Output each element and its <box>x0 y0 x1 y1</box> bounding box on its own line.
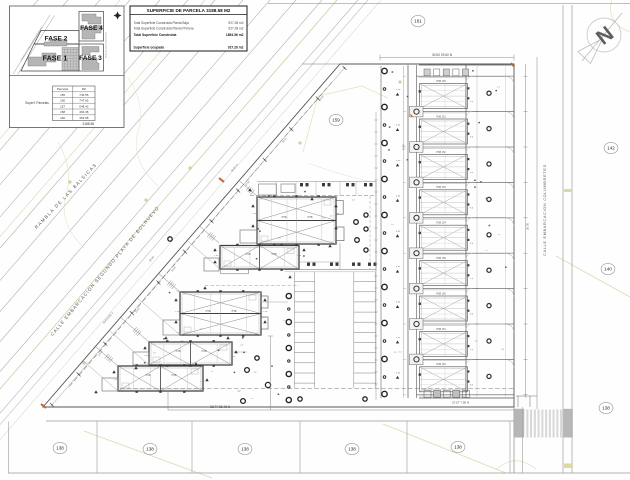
terrace porch stair 5 <box>410 248 424 259</box>
north arrow shaft <box>582 13 622 61</box>
parcel number 159 <box>329 114 343 125</box>
entry stair 1 <box>246 186 250 191</box>
terrace unit 8 back arc <box>466 324 472 330</box>
plot line 3 <box>159 273 181 292</box>
svg-text:38.77 39.48 N: 38.77 39.48 N <box>210 405 231 409</box>
scattered trees <box>265 382 270 387</box>
terrace unit 1 garden gate arc <box>506 76 515 85</box>
svg-text:FASE 1: FASE 1 <box>43 54 68 63</box>
svg-text:138: 138 <box>348 447 356 452</box>
house E garage <box>102 378 118 391</box>
terrace porch stair 3 <box>410 177 424 188</box>
entry stair 4 <box>133 327 137 332</box>
key plan fase 1 buildings <box>28 53 56 66</box>
road rambla diagonal lines <box>0 0 381 480</box>
svg-text:927.28 m2: 927.28 m2 <box>228 21 243 25</box>
svg-text:P.5B 151: P.5B 151 <box>436 115 446 118</box>
svg-text:P.5B 153: P.5B 153 <box>436 186 446 189</box>
terrace unit 9 roof <box>420 367 468 392</box>
svg-text:Total Superficie Construida Pl: Total Superficie Construida Planta Baja <box>134 21 190 25</box>
svg-text:P.5B: P.5B <box>176 350 181 353</box>
svg-text:P.5B 150: P.5B 150 <box>436 292 446 295</box>
terrace unit 5 marks <box>419 232 421 234</box>
svg-text:161: 161 <box>414 19 422 24</box>
svg-text:P.5B 152: P.5B 152 <box>436 363 446 366</box>
terrace party wall 10 <box>417 394 515 396</box>
top margin line <box>268 3 630 5</box>
svg-text:30.50 29.60 N: 30.50 29.60 N <box>432 53 453 57</box>
terrace unit 9 garden tree <box>487 374 491 378</box>
terrace unit 5 garden tree <box>487 233 491 237</box>
terrace unit 2 garden tree <box>487 127 491 131</box>
entry stair 2 <box>207 232 211 237</box>
terrace unit 9 back arc <box>466 359 472 365</box>
road calle segundo curbs <box>0 0 337 480</box>
setback dashed line along street <box>68 82 332 388</box>
house pair A window marks <box>273 195 275 197</box>
svg-text:158: 158 <box>60 110 65 114</box>
bottom parcels baseline <box>8 472 630 474</box>
svg-text:138: 138 <box>454 445 462 450</box>
terrain contour top right <box>610 0 630 32</box>
entry stair 3 <box>167 280 171 285</box>
dashed garden line east of house A <box>369 196 371 269</box>
svg-text:FASE 2: FASE 2 <box>45 36 68 43</box>
terrace unit 1 back arc <box>466 76 472 82</box>
terrace unit 9 marks <box>419 373 421 375</box>
dim line mid vertical <box>270 336 272 410</box>
key plan fase 2 parcel <box>34 31 79 45</box>
terrace party wall 7 <box>417 288 515 290</box>
svg-text:P.5B: P.5B <box>206 310 211 313</box>
terrace top dimension line <box>380 57 514 59</box>
house C garage <box>163 320 180 335</box>
svg-text:5.70: 5.70 <box>402 144 406 150</box>
terrace block outline <box>380 66 382 398</box>
key plan fase 1 parcel <box>21 44 79 71</box>
crosswalk zebra stripes <box>526 410 528 438</box>
terrace unit 1 marks <box>419 90 421 92</box>
svg-text:FASE 3: FASE 3 <box>79 55 102 62</box>
parcel number 138 <box>451 441 465 452</box>
svg-text:P.5B: P.5B <box>246 253 251 256</box>
svg-text:P.5B: P.5B <box>272 253 277 256</box>
parcel number 140 <box>601 263 615 274</box>
small symbol marks cluster <box>251 204 254 207</box>
svg-text:3188.58: 3188.58 <box>82 122 94 126</box>
svg-text:P.5B: P.5B <box>282 216 287 219</box>
svg-text:SUPERFICIE DE PARCELA 3188.58: SUPERFICIE DE PARCELA 3188.58 M2 <box>147 8 231 13</box>
terrace unit 6 marks <box>419 267 421 269</box>
svg-text:648.42: 648.42 <box>79 104 89 108</box>
parking area top boundary <box>285 269 376 271</box>
svg-text:P.5B 150: P.5B 150 <box>436 80 446 83</box>
terrace unit 3 roof <box>420 154 468 179</box>
terrace dim tick 9 <box>524 358 528 360</box>
svg-text:Embarcacion Columbretes: Embarcacion Columbretes <box>105 31 108 58</box>
parcel number 138 <box>143 443 157 454</box>
svg-text:1854.56 m2: 1854.56 m2 <box>226 33 244 37</box>
street columbretes right curbs <box>562 5 564 473</box>
svg-text:P.5B 151: P.5B 151 <box>436 328 446 331</box>
svg-text:159: 159 <box>332 118 340 123</box>
svg-text:157: 157 <box>60 104 65 108</box>
terrain contour wedge near 159 <box>303 86 388 152</box>
svg-text:927.28 m2: 927.28 m2 <box>228 27 243 31</box>
terrace porch stair 8 <box>410 354 424 365</box>
svg-text:FASE 4: FASE 4 <box>80 25 103 32</box>
terrace dim tick 1 <box>524 75 528 77</box>
terrace unit 8 roof <box>420 331 468 356</box>
svg-text:Superficie ocupada: Superficie ocupada <box>134 45 165 49</box>
svg-text:Parcelas: Parcelas <box>57 87 69 91</box>
street columbretes left curb <box>536 57 538 409</box>
terrace entry top porches <box>424 69 430 76</box>
terrace unit 7 back arc <box>466 289 472 295</box>
key plan box <box>10 6 125 128</box>
boundary top extension line <box>302 63 340 65</box>
terrace unit 4 garden tree <box>487 197 491 201</box>
terrace dim tick 3 <box>524 146 528 148</box>
parcel number 138 <box>238 443 252 454</box>
terrace dim tick 6 <box>524 252 528 254</box>
terrace unit 4 roof <box>420 190 468 215</box>
orange mark street <box>219 178 224 182</box>
svg-text:Total Superficie Construida Pl: Total Superficie Construida Planta Prime… <box>134 27 194 31</box>
svg-text:142: 142 <box>607 146 615 151</box>
terrace unit 6 garden gate arc <box>506 253 515 262</box>
svg-text:463.38: 463.38 <box>79 110 89 114</box>
house C right annexes <box>261 296 268 308</box>
terrace party wall 8 <box>417 323 515 325</box>
marks above parking <box>307 263 310 266</box>
house pair D <box>149 342 232 365</box>
terrace unit 4 back arc <box>466 182 472 188</box>
parcel number 161 <box>411 15 425 26</box>
tan dots left band <box>68 180 71 183</box>
terrace unit 9 garden gate arc <box>506 359 515 368</box>
tan dash right road <box>564 189 572 192</box>
svg-text:P.5B: P.5B <box>172 374 177 377</box>
key plan fase 4 buildings <box>82 14 101 24</box>
svg-text:747.65: 747.65 <box>79 99 89 103</box>
plot line 5 <box>95 346 118 366</box>
terrace unit 7 garden tree <box>487 304 491 308</box>
terrace unit 6 back arc <box>466 253 472 259</box>
terrace party wall 2 <box>417 111 515 113</box>
svg-text:Total Superficie Construida: Total Superficie Construida <box>134 33 177 37</box>
terrain line right margin <box>556 256 630 297</box>
parcel number 138 <box>53 442 67 453</box>
terrace corridor dim line <box>403 66 405 398</box>
boundary dimension chain <box>52 68 345 405</box>
terrace porch stair 6 <box>410 283 424 294</box>
key plan fase 3 parcel <box>79 44 104 71</box>
terrace unit 2 roof <box>420 119 468 144</box>
upper band store rooms <box>259 184 277 195</box>
terrace porch stair 4 <box>410 213 424 224</box>
orange mark terrace corner <box>511 63 514 67</box>
terrace party wall 6 <box>417 252 515 254</box>
terrace unit 5 roof <box>420 225 468 250</box>
house pair E window marks <box>136 364 138 366</box>
house B porch strip <box>221 269 249 274</box>
site boundary polygon <box>43 64 514 407</box>
terrace unit 4 garden gate arc <box>506 182 515 191</box>
terrace corridor unit marks <box>396 89 474 386</box>
key plan fase 3 buildings <box>82 47 99 56</box>
terrace dim tick 7 <box>524 288 528 290</box>
svg-text:CALLE EMBARCACION COLUMBRETE: CALLE EMBARCACION COLUMBRETES <box>543 164 547 256</box>
terrace unit 2 garden gate arc <box>506 112 515 121</box>
terrace unit 3 garden gate arc <box>506 147 515 156</box>
terrace unit 2 back arc <box>466 112 472 118</box>
key plan fase 1 hatched block <box>62 48 79 71</box>
terrace unit 7 roof <box>420 296 468 321</box>
orange mark corner <box>41 404 46 408</box>
key plan fase 4 parcel <box>79 12 104 42</box>
svg-text:P.5B 154: P.5B 154 <box>436 222 446 225</box>
site east line below road <box>513 407 515 473</box>
svg-text:27.57 7.50 N: 27.57 7.50 N <box>452 401 469 405</box>
house pair B <box>220 246 299 270</box>
svg-text:140: 140 <box>604 267 612 272</box>
terrace unit 1 roof <box>420 84 468 109</box>
parking east column stalls <box>353 272 355 388</box>
svg-text:P.5B: P.5B <box>202 350 207 353</box>
crosswalk speckled block east <box>564 409 573 438</box>
svg-text:138: 138 <box>602 406 610 411</box>
orange mark corridor <box>411 115 413 118</box>
tree row mid parcel <box>286 293 291 298</box>
terrace party wall 3 <box>417 146 515 148</box>
dashed build line bottom <box>120 388 514 390</box>
svg-text:M2: M2 <box>82 87 86 91</box>
terrace unit 8 garden tree <box>487 339 491 343</box>
terrace unit 2 marks <box>419 126 421 128</box>
house B garage <box>204 258 219 271</box>
bottom dimension line <box>168 409 514 411</box>
house A right annexes <box>336 201 343 215</box>
terrace garden dim chain <box>476 66 479 398</box>
svg-text:463.58: 463.58 <box>79 116 89 120</box>
terrace unit 8 garden gate arc <box>506 324 515 333</box>
svg-text:P.5B: P.5B <box>232 310 237 313</box>
terrace unit 1 garden tree <box>487 91 491 95</box>
terrace unit 7 garden gate arc <box>506 289 515 298</box>
terrace unit 4 marks <box>419 196 421 198</box>
terrace unit 7 marks <box>419 303 421 305</box>
bottom parcel dividers <box>8 422 10 474</box>
annotation speckle marks <box>144 70 507 400</box>
left dim column <box>167 392 169 410</box>
terrace unit 6 roof <box>420 261 468 286</box>
upper garden band lines <box>257 181 376 183</box>
house pair E <box>118 366 203 391</box>
plot line 1 <box>239 181 257 197</box>
plot line 2 <box>200 226 220 243</box>
terrace bottom porch row <box>424 391 431 398</box>
terrace garden road edge line <box>505 65 507 398</box>
terrace unit 3 garden tree <box>487 162 491 166</box>
terrace unit 6 garden tree <box>487 268 491 272</box>
upper band marks <box>300 183 303 186</box>
house pair B window marks <box>236 244 238 246</box>
svg-text:P.5B 155: P.5B 155 <box>436 257 446 260</box>
key plan fase 2 building <box>44 40 67 47</box>
terrace dim tick 2 <box>524 111 528 113</box>
key plan star <box>114 12 122 20</box>
house pair A <box>257 197 336 244</box>
parcel number 138 <box>345 443 359 454</box>
house A garage <box>240 230 257 243</box>
terrace porch stair 2 <box>410 142 424 153</box>
plot line 4 <box>120 317 149 342</box>
svg-text:P.5B: P.5B <box>308 216 313 219</box>
entry stair 5 <box>105 354 109 359</box>
terrace unit 3 back arc <box>466 147 472 153</box>
crosswalk leader marks <box>516 395 537 397</box>
north arrow tail <box>578 39 603 64</box>
parcel number 142 <box>604 142 618 153</box>
areas table <box>53 86 96 121</box>
terrace unit 3 marks <box>419 161 421 163</box>
cream terrain lines left <box>0 0 205 480</box>
terrace dim tick 8 <box>524 323 528 325</box>
terrace unit 5 garden gate arc <box>506 218 515 227</box>
terrace porch stair 1 <box>410 106 424 117</box>
terrain lines bottom parcels <box>84 431 212 478</box>
terrace dim tick 10 <box>524 394 528 396</box>
terrace unit 8 marks <box>419 338 421 340</box>
crosswalk speckled block west <box>515 409 525 438</box>
terrace party wall 4 <box>417 181 515 183</box>
dashed line between B and C <box>205 285 299 287</box>
terrace party wall 5 <box>417 217 515 219</box>
tree row west of terrace <box>382 68 387 73</box>
terrace dim tick 4 <box>524 181 528 183</box>
house pair C window marks <box>197 290 199 292</box>
terrace unit 5 back arc <box>466 218 472 224</box>
terrace party wall 9 <box>417 358 515 360</box>
house pair D window marks <box>166 340 168 342</box>
margin mask left of key plan <box>0 0 10 128</box>
terrace right dimension column <box>525 64 527 398</box>
svg-text:156: 156 <box>60 99 65 103</box>
svg-text:P.5B 152: P.5B 152 <box>436 151 446 154</box>
svg-text:138: 138 <box>56 446 64 451</box>
fan plot lines lower <box>187 240 220 269</box>
title block box <box>130 6 247 51</box>
house D garage <box>133 352 149 365</box>
svg-text:36.50: 36.50 <box>526 223 530 230</box>
north arrow circle <box>587 18 621 52</box>
key plan divider <box>10 75 125 77</box>
terrace party wall 1 <box>417 75 515 77</box>
key plan street lines <box>13 15 50 74</box>
svg-text:138: 138 <box>146 447 154 452</box>
terrain contour curves left band <box>58 142 84 248</box>
svg-text:P.5B: P.5B <box>146 374 151 377</box>
terrace dim tick 5 <box>524 217 528 219</box>
svg-text:927.28 m2: 927.28 m2 <box>228 45 244 49</box>
house pair C <box>180 292 261 335</box>
svg-text:746.55: 746.55 <box>79 93 89 97</box>
terrace porch stair 7 <box>410 319 424 330</box>
svg-text:Superf. Parcelas: Superf. Parcelas <box>25 101 49 105</box>
svg-text:160: 160 <box>60 116 65 120</box>
parcel number 138 <box>599 402 613 413</box>
svg-text:155: 155 <box>60 93 65 97</box>
garden band dividers above house A <box>275 182 277 196</box>
parking west column stalls <box>293 272 295 388</box>
svg-text:138: 138 <box>241 447 249 452</box>
bottom road curb <box>46 420 514 422</box>
cluster link lines <box>339 243 341 270</box>
